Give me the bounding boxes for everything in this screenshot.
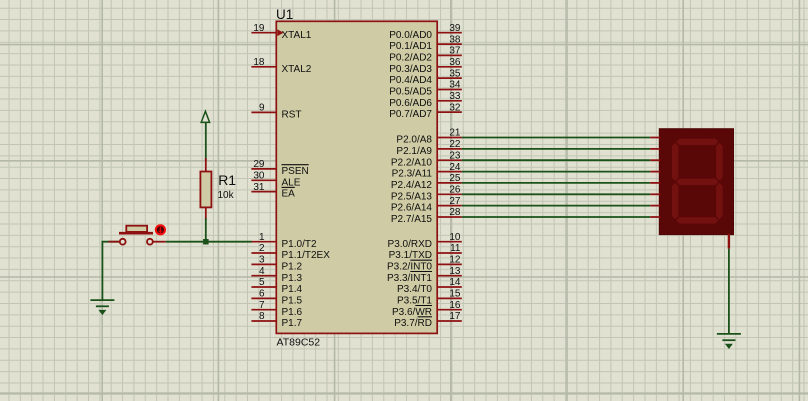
svg-text:25: 25 bbox=[449, 173, 461, 184]
pin 29 PSEN bbox=[251, 159, 308, 177]
svg-text:P0.1/AD1: P0.1/AD1 bbox=[389, 41, 432, 52]
ground symbol (left) bbox=[90, 300, 114, 314]
wire P2.4 to 7-seg display bbox=[462, 182, 650, 184]
svg-text:33: 33 bbox=[449, 91, 461, 102]
svg-text:4: 4 bbox=[259, 266, 265, 277]
pin 15 P3.5/T1 bbox=[397, 289, 462, 307]
svg-text:8: 8 bbox=[259, 311, 265, 322]
svg-text:PSEN: PSEN bbox=[282, 166, 309, 177]
svg-text:34: 34 bbox=[449, 80, 461, 91]
svg-text:P2.6/A14: P2.6/A14 bbox=[391, 203, 433, 214]
pin 30 ALE bbox=[251, 171, 300, 189]
svg-text:37: 37 bbox=[449, 46, 461, 57]
svg-text:36: 36 bbox=[449, 57, 461, 68]
svg-text:2: 2 bbox=[259, 243, 265, 254]
svg-text:28: 28 bbox=[449, 207, 461, 218]
svg-text:23: 23 bbox=[449, 150, 461, 161]
pin 3 P1.2 bbox=[251, 255, 302, 273]
svg-text:1: 1 bbox=[259, 232, 265, 243]
pin 25 P2.4/A12 bbox=[391, 173, 462, 191]
pin 23 P2.2/A10 bbox=[391, 150, 462, 168]
display segment c bbox=[716, 183, 723, 220]
display segment f bbox=[672, 143, 679, 181]
pin 5 P1.4 bbox=[251, 277, 302, 295]
pin 10 P3.0/RXD bbox=[388, 232, 462, 250]
pin 6 P1.5 bbox=[251, 289, 302, 307]
svg-text:30: 30 bbox=[253, 171, 265, 182]
svg-text:P1.2: P1.2 bbox=[282, 262, 303, 273]
svg-text:21: 21 bbox=[449, 128, 461, 139]
pin 8 P1.7 bbox=[251, 311, 302, 329]
svg-text:P2.0/A8: P2.0/A8 bbox=[396, 135, 432, 146]
svg-text:R1: R1 bbox=[218, 172, 236, 188]
ground symbol (under display) bbox=[717, 334, 741, 348]
display segment pin e bbox=[650, 182, 660, 184]
button toggle red dot bbox=[155, 224, 166, 235]
pin 1 P1.0/T2 bbox=[251, 232, 317, 250]
svg-text:18: 18 bbox=[253, 57, 265, 68]
wire ground up and right to button bbox=[102, 242, 119, 300]
pin 39 P0.0/AD0 bbox=[389, 23, 462, 41]
pin 11 P3.1/TXD bbox=[389, 243, 462, 261]
svg-text:31: 31 bbox=[253, 182, 265, 193]
pin 16 P3.6/WR bbox=[392, 300, 462, 318]
svg-text:P2.7/A15: P2.7/A15 bbox=[391, 214, 433, 225]
svg-text:6: 6 bbox=[259, 289, 265, 300]
pin 36 P0.3/AD3 bbox=[389, 57, 462, 75]
svg-text:P3.1/TXD: P3.1/TXD bbox=[389, 250, 432, 261]
pin 13 P3.3/INT1 bbox=[387, 266, 462, 284]
svg-text:P0.4/AD4: P0.4/AD4 bbox=[389, 75, 432, 86]
pin 37 P0.2/AD2 bbox=[389, 46, 462, 64]
power terminal VCC arrow bbox=[201, 111, 209, 122]
svg-text:P3.3/INT1: P3.3/INT1 bbox=[387, 273, 432, 284]
svg-text:P3.4/T0: P3.4/T0 bbox=[397, 284, 432, 295]
svg-text:P3.2/INT0: P3.2/INT0 bbox=[387, 262, 432, 273]
svg-text:19: 19 bbox=[253, 23, 265, 34]
pin 19 XTAL1 bbox=[251, 23, 311, 41]
wire P2.5 to 7-seg display bbox=[462, 193, 650, 195]
svg-text:P2.4/A12: P2.4/A12 bbox=[391, 180, 433, 191]
svg-text:XTAL1: XTAL1 bbox=[282, 30, 312, 41]
svg-text:29: 29 bbox=[253, 159, 265, 170]
wire R1 to node bbox=[205, 218, 207, 241]
svg-text:27: 27 bbox=[449, 196, 461, 207]
display segment pin a bbox=[650, 137, 660, 139]
svg-text:P1.6: P1.6 bbox=[282, 307, 303, 318]
wire display common to ground bbox=[728, 249, 730, 334]
svg-text:26: 26 bbox=[449, 185, 461, 196]
resistor R1 bbox=[200, 158, 211, 220]
svg-text:P1.1/T2EX: P1.1/T2EX bbox=[282, 250, 331, 261]
svg-text:RST: RST bbox=[282, 110, 302, 121]
pin 32 P0.7/AD7 bbox=[389, 102, 462, 120]
svg-text:7: 7 bbox=[259, 300, 265, 311]
wire power to R1 bbox=[205, 123, 207, 161]
svg-text:XTAL2: XTAL2 bbox=[282, 64, 312, 75]
svg-text:P1.0/T2: P1.0/T2 bbox=[282, 239, 317, 250]
svg-text:P3.6/WR: P3.6/WR bbox=[392, 307, 432, 318]
svg-text:22: 22 bbox=[449, 139, 461, 150]
svg-text:13: 13 bbox=[449, 266, 461, 277]
svg-text:17: 17 bbox=[449, 311, 461, 322]
pin 27 P2.6/A14 bbox=[391, 196, 462, 214]
display segment pin c bbox=[650, 159, 660, 161]
svg-text:P2.2/A10: P2.2/A10 bbox=[391, 157, 433, 168]
svg-text:P1.5: P1.5 bbox=[282, 296, 303, 307]
wire P2.6 to 7-seg display bbox=[462, 205, 650, 207]
microcontroller U1 AT89C52 body bbox=[276, 21, 437, 333]
pin 7 P1.6 bbox=[251, 300, 302, 318]
pin 14 P3.4/T0 bbox=[397, 277, 462, 295]
svg-text:P1.4: P1.4 bbox=[282, 284, 303, 295]
pin 22 P2.1/A9 bbox=[396, 139, 461, 157]
svg-text:P3.0/RXD: P3.0/RXD bbox=[388, 239, 432, 250]
svg-text:P3.7/RD: P3.7/RD bbox=[394, 318, 432, 329]
wire P2.0 to 7-seg display bbox=[462, 137, 650, 139]
display segment a bbox=[676, 139, 718, 146]
pin 4 P1.3 bbox=[251, 266, 302, 284]
svg-text:AT89C52: AT89C52 bbox=[277, 337, 321, 349]
svg-text:ALE: ALE bbox=[282, 177, 301, 188]
pin 34 P0.5/AD5 bbox=[389, 80, 462, 98]
pin 31 EA bbox=[251, 182, 295, 200]
svg-text:P0.3/AD3: P0.3/AD3 bbox=[389, 64, 432, 75]
pin 28 P2.7/A15 bbox=[391, 207, 462, 225]
svg-text:24: 24 bbox=[449, 162, 461, 173]
display segment g bbox=[676, 179, 718, 186]
svg-text:11: 11 bbox=[450, 243, 461, 254]
display segment b bbox=[716, 143, 723, 181]
svg-text:EA: EA bbox=[282, 189, 296, 200]
display segment pin f bbox=[650, 193, 660, 195]
svg-text:38: 38 bbox=[449, 34, 461, 45]
wire P2.1 to 7-seg display bbox=[462, 148, 650, 150]
wire P2.7 to 7-seg display bbox=[462, 216, 650, 218]
svg-text:39: 39 bbox=[449, 23, 461, 34]
svg-text:P3.5/T1: P3.5/T1 bbox=[397, 296, 432, 307]
svg-text:P2.5/A13: P2.5/A13 bbox=[391, 191, 433, 202]
display segment pin g bbox=[650, 205, 660, 207]
svg-text:U1: U1 bbox=[276, 7, 293, 22]
wire P2.2 to 7-seg display bbox=[462, 159, 650, 161]
wire button to P1.0 bbox=[166, 241, 252, 243]
svg-text:5: 5 bbox=[259, 277, 265, 288]
display segment e bbox=[672, 183, 679, 220]
push button bbox=[109, 226, 166, 245]
svg-text:P1.3: P1.3 bbox=[282, 273, 303, 284]
svg-text:12: 12 bbox=[449, 255, 461, 266]
svg-text:10: 10 bbox=[449, 232, 461, 243]
pin 26 P2.5/A13 bbox=[391, 185, 462, 203]
svg-text:15: 15 bbox=[449, 289, 461, 300]
svg-text:14: 14 bbox=[449, 277, 461, 288]
svg-text:P2.1/A9: P2.1/A9 bbox=[396, 146, 432, 157]
svg-text:10k: 10k bbox=[218, 190, 235, 201]
display common pin (bottom) bbox=[728, 234, 730, 249]
pin 18 XTAL2 bbox=[251, 57, 311, 75]
svg-text:32: 32 bbox=[449, 102, 461, 113]
svg-text:P0.5/AD5: P0.5/AD5 bbox=[389, 87, 432, 98]
svg-text:P0.7/AD7: P0.7/AD7 bbox=[389, 109, 432, 120]
svg-text:P0.2/AD2: P0.2/AD2 bbox=[389, 53, 432, 64]
svg-text:P0.6/AD6: P0.6/AD6 bbox=[389, 98, 432, 109]
display segment pin d bbox=[650, 171, 660, 173]
svg-text:16: 16 bbox=[449, 300, 461, 311]
pin 24 P2.3/A11 bbox=[392, 162, 462, 180]
display segment d bbox=[676, 217, 718, 224]
pin 17 P3.7/RD bbox=[394, 311, 462, 329]
pin 12 P3.2/INT0 bbox=[387, 255, 462, 273]
pin 38 P0.1/AD1 bbox=[389, 34, 462, 52]
svg-text:P0.0/AD0: P0.0/AD0 bbox=[389, 30, 432, 41]
junction node at R1/button wire bbox=[203, 239, 209, 245]
svg-text:9: 9 bbox=[259, 103, 265, 114]
svg-text:35: 35 bbox=[449, 68, 461, 79]
wire P2.3 to 7-seg display bbox=[462, 171, 650, 173]
svg-text:P2.3/A11: P2.3/A11 bbox=[392, 169, 433, 180]
pin 33 P0.6/AD6 bbox=[389, 91, 462, 109]
svg-text:3: 3 bbox=[259, 255, 265, 266]
display segment pin h bbox=[650, 216, 660, 218]
pin 2 P1.1/T2EX bbox=[251, 243, 330, 261]
pin 21 P2.0/A8 bbox=[396, 128, 461, 146]
7-segment display body bbox=[659, 129, 733, 235]
svg-text:P1.7: P1.7 bbox=[282, 318, 303, 329]
pin 35 P0.4/AD4 bbox=[389, 68, 462, 86]
display segment pin b bbox=[650, 148, 660, 150]
pin 9 RST bbox=[251, 103, 301, 121]
